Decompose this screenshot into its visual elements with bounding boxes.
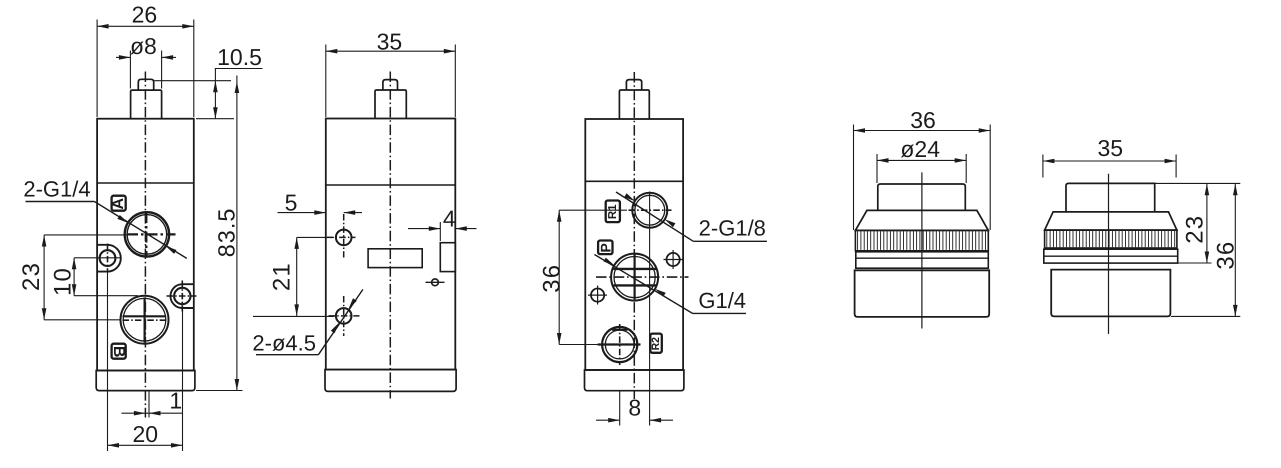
middle port vertical slot line [633, 255, 635, 300]
port label box R1 (view 3) [606, 201, 620, 223]
side mounting hole bottom (view 2) [336, 308, 352, 324]
mounting hole top-left vertical centerline [107, 244, 109, 273]
view 1: front view body outline [97, 119, 194, 371]
dimension ø24 right arrow [955, 158, 967, 163]
svg-text:10.5: 10.5 [217, 44, 262, 70]
dimension 10 down arrow [72, 284, 77, 296]
dimension 26 left arrow [97, 24, 109, 29]
dimension 36 (view 5 height) [1171, 184, 1240, 317]
dimension 21 up arrow [294, 237, 299, 249]
dimension 10.5 up arrow [213, 81, 218, 93]
view 5 vertical centerline [1108, 174, 1110, 334]
port circle A outer (view 1) [125, 212, 169, 256]
svg-text:8: 8 [628, 395, 641, 421]
dimension 5 left arrow [314, 210, 326, 215]
dimension 20 left arrow [108, 443, 120, 448]
port circle A vertical center segment [145, 212, 147, 258]
dimension 4 left arrow [429, 226, 441, 231]
svg-text:20: 20 [133, 421, 159, 447]
view 3 vertical centerline [633, 72, 635, 399]
dimension 36 down arrow (view 3) [557, 333, 562, 345]
dimension ø8 left arrow [119, 55, 130, 60]
bottom port top chord [612, 329, 628, 331]
dimension 36 (knob width, view 4) [854, 107, 991, 230]
dimension 1 (port offset) [122, 388, 183, 418]
svg-text:83.5: 83.5 [214, 208, 240, 258]
dimension 4 (tab width, view 2) [408, 206, 477, 242]
leader arrowhead at bottom hole upper-right (view 2) [348, 298, 356, 309]
mounting hole bottom-right vertical centerline [181, 281, 183, 312]
dimension 26 (view 1 top width) [97, 2, 194, 118]
svg-text:1: 1 [169, 388, 182, 414]
dimension 23 up arrow (view 5) [1205, 184, 1210, 196]
svg-text:R2: R2 [650, 337, 662, 351]
middle port slot chord upper [614, 268, 657, 270]
dimension 35 left arrow [326, 49, 338, 54]
view 5 knurled band [1045, 230, 1177, 248]
port label box A (view 1) [110, 196, 127, 211]
bottom port vertical reference line (8 dim) [619, 391, 621, 426]
port circle A horizontal centerline [127, 233, 176, 235]
top port R1 circle inner [635, 195, 665, 225]
svg-text:10: 10 [50, 267, 77, 296]
leader arrowhead at R1 upper-left edge [624, 193, 635, 201]
svg-text:B: B [110, 346, 127, 358]
middle port slot chord lower [614, 284, 657, 286]
dimension 36 (port spacing, view 3) [539, 210, 628, 344]
leader arrowhead at bottom hole lower-left (view 2) [331, 323, 339, 334]
svg-text:5: 5 [285, 190, 298, 216]
mounting cross hole left (view 3) [588, 286, 607, 305]
svg-text:26: 26 [132, 2, 158, 28]
port label box R2 (view 3) [650, 334, 662, 353]
dimension 5 right arrow [344, 210, 356, 215]
dimension 23 (view 5) [1171, 184, 1211, 263]
svg-text:23: 23 [1181, 215, 1208, 244]
dimension 83.5 down arrow [235, 379, 240, 391]
view 3 override stem [619, 90, 649, 119]
top port vertical reference line (8 dim) [649, 192, 651, 391]
view 2 bottom flange [325, 370, 456, 392]
dimension 36 left arrow (view 4) [854, 128, 866, 133]
dimension 20 (mounting hole spacing) [108, 273, 183, 452]
label 2-G1/8 with leader [616, 192, 767, 241]
svg-text:A: A [110, 197, 127, 209]
view 1 bottom flange [96, 371, 195, 391]
dimension ø24 (view 4) [877, 136, 966, 183]
view 1 manual override stem [131, 90, 162, 119]
dimension 8 left arrow [608, 418, 620, 423]
dimension 8 right arrow [650, 418, 662, 423]
dimension 5 (hole offset, view 2) [278, 190, 363, 216]
dimension 10.5 (button height) [154, 44, 262, 119]
dimension 21 down arrow [294, 304, 299, 316]
view 5 cap flare trapezoid [1045, 212, 1177, 230]
view 4 knurled band [855, 230, 988, 250]
bottom port R2 circle inner [605, 330, 634, 359]
view 3 upper section divider line [585, 180, 683, 182]
svg-text:P: P [597, 243, 613, 252]
side hole bottom vertical centerline [343, 296, 345, 336]
dimension 20 right arrow [171, 443, 183, 448]
label 2-G1/4 with leader [23, 177, 186, 259]
leader arrowhead at port A lower-right edge [166, 246, 177, 254]
leader arrowhead at P upper-left edge [604, 258, 615, 266]
dimension 10.5 down arrow [213, 107, 218, 119]
mounting boss top-left D-shape (view 1) [97, 245, 121, 272]
view 2: side view body outline [326, 119, 456, 370]
view 1 upper section divider line [97, 182, 194, 184]
mounting boss bottom-right D-shape (view 1) [170, 284, 194, 308]
port circle B outer (view 1) [121, 296, 169, 344]
svg-text:21: 21 [268, 262, 295, 291]
dimension 1 left arrow [134, 411, 146, 416]
leader arrowhead into port A upper-left [117, 215, 128, 223]
mounting hole bottom-right circle [174, 288, 190, 304]
middle port horizontal centerline (view 3) [596, 276, 689, 278]
dimension 36 right arrow (view 4) [979, 128, 991, 133]
view 2 override stem [375, 90, 406, 119]
view 3: back view body outline [585, 119, 683, 370]
top port R1 circle outer (view 3) [632, 193, 667, 228]
port circle B slot chord [123, 315, 167, 317]
view 4 cap flare trapezoid [855, 210, 988, 230]
svg-text:36: 36 [910, 107, 936, 133]
dimension 23 up arrow [42, 235, 47, 247]
view 1 override button [138, 79, 153, 90]
dimension 36 up arrow (view 3) [557, 210, 562, 222]
side hole bottom horizontal centerline [329, 315, 360, 317]
view 2 override button [383, 80, 398, 90]
svg-text:35: 35 [377, 29, 403, 55]
middle port P circle inner [614, 257, 655, 298]
dimension 83.5 up arrow [235, 82, 240, 94]
view 5 top extension line for 23/36 dims [1155, 182, 1241, 184]
bottom port R2 circle outer (view 3) [602, 327, 637, 362]
svg-text:35: 35 [1098, 135, 1124, 161]
port circle A inner thread (view 1) [127, 215, 167, 255]
svg-text:2-G1/8: 2-G1/8 [699, 215, 766, 240]
label 2-ø4.5 with leader [252, 289, 362, 355]
view 4 collar ring [856, 252, 989, 268]
svg-text:4: 4 [443, 206, 456, 232]
dimension 35 right arrow [444, 49, 456, 54]
view 5 base cylinder [1051, 270, 1170, 317]
view 2 upper section divider line [326, 184, 456, 186]
dimension 35 (view 5 width) [1043, 135, 1176, 178]
view 5 collar ring [1044, 249, 1178, 263]
dimension 83.5 (total height) [196, 76, 243, 391]
dimension 10 up arrow [72, 258, 77, 270]
dimension 23 (port spacing, view 1) [18, 235, 128, 320]
side tab rectangle (view 2) [440, 243, 455, 272]
svg-text:R1: R1 [607, 204, 619, 219]
mounting hole top-left circle [100, 250, 116, 266]
dimension ø8 (stem diameter) [116, 33, 176, 89]
name plate rectangle (view 2) [368, 249, 422, 268]
view 1 vertical centerline [144, 72, 146, 418]
bottom port vertical centerline [619, 324, 621, 365]
side hole top vertical centerline [343, 214, 345, 258]
svg-text:36: 36 [539, 264, 566, 293]
dimension 35 (view 2 width) [326, 29, 456, 118]
leader arrowhead at R1 lower-right edge [665, 219, 676, 227]
label G1/4 with leader [595, 255, 747, 314]
svg-text:ø24: ø24 [900, 136, 940, 162]
view 4: knob front view top cylinder [878, 184, 966, 211]
middle port P circle outer (view 3) [611, 254, 658, 301]
mounting cross hole right (view 3) [664, 250, 683, 269]
bottom port horizontal slot line [598, 343, 641, 345]
svg-text:23: 23 [18, 262, 45, 291]
view 2 vertical centerline [389, 72, 391, 399]
dimension 36 up arrow (view 5) [1233, 184, 1238, 196]
small vent port symbol (view 2) [426, 279, 445, 286]
svg-text:2-ø4.5: 2-ø4.5 [252, 330, 316, 355]
svg-text:G1/4: G1/4 [698, 288, 746, 313]
view 5: knob side view top cylinder [1066, 183, 1155, 211]
view 4 vertical centerline [921, 172, 923, 328]
dimension 35 right arrow (view 5) [1165, 159, 1177, 164]
port circle B horizontal centerline [123, 319, 168, 321]
dimension ø8 right arrow [162, 55, 174, 60]
port circle B inner thread (view 1) [123, 298, 166, 341]
port circle B vertical slot line [144, 298, 146, 343]
dimension 23 down arrow (view 5) [1205, 252, 1210, 264]
port label box P (view 3) [597, 241, 613, 255]
mounting hole bottom-right horizontal centerline [167, 295, 197, 297]
dimension 8 (port offset, view 3) [596, 391, 673, 426]
dimension 35 left arrow (view 5) [1043, 159, 1055, 164]
svg-text:2-G1/4: 2-G1/4 [23, 177, 90, 202]
dimension ø24 left arrow [877, 158, 889, 163]
dimension 36 down arrow (view 5) [1233, 305, 1238, 317]
dimension 10 (hole spacing, view 1) [50, 258, 138, 296]
leader arrowhead at P lower-right edge [655, 289, 666, 297]
port label box B (view 1) [110, 344, 127, 359]
dimension 23 down arrow [42, 308, 47, 320]
top port R1 horizontal centerline [629, 209, 672, 211]
svg-text:ø8: ø8 [130, 33, 157, 59]
view 3 bottom flange [585, 370, 684, 391]
dimension 21 (hole spacing, view 2) [253, 237, 334, 316]
view 4 base cylinder [855, 270, 990, 317]
dimension 4 right arrow [455, 226, 467, 231]
dimension 26 right arrow [182, 24, 194, 29]
side mounting hole top (view 2) [336, 230, 352, 246]
side hole top horizontal centerline [327, 236, 356, 238]
view 3 override button [626, 80, 641, 90]
dimension 1 right arrow [149, 411, 161, 416]
